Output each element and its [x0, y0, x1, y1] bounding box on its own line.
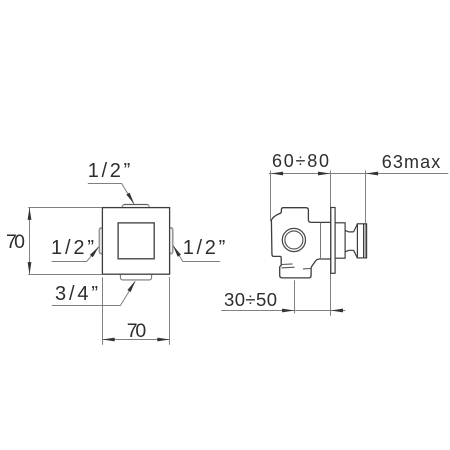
right tab (1/2" inlet right)	[169, 228, 172, 254]
arrow 60÷80 right	[318, 172, 330, 176]
dim 70 vertical: dimension line	[29, 208, 31, 275]
side port inner circle	[285, 231, 303, 249]
leader 1/2" top arrowhead	[126, 193, 136, 206]
extension line wall plane	[330, 171, 332, 316]
wall plate	[331, 208, 335, 274]
valve body outline (side)	[271, 208, 330, 278]
svg-text:60÷80: 60÷80	[272, 151, 329, 171]
inner square	[118, 223, 154, 259]
svg-text:3/4”: 3/4”	[55, 283, 98, 305]
top tab upper edge	[124, 204, 148, 206]
handle waist bottom edge	[345, 250, 354, 252]
dim 70 vertical: extension line bottom	[28, 274, 101, 276]
handle end cap	[357, 224, 366, 258]
leader 1/2" right arrowhead	[171, 244, 181, 256]
leader 1/2" top	[88, 184, 134, 204]
handle collar	[335, 223, 345, 258]
internal edge line (cylinder vs body)	[320, 223, 322, 260]
svg-text:30÷50: 30÷50	[224, 289, 277, 310]
top dimension line (60÷80 / 63max)	[269, 173, 449, 175]
stub weld line A	[282, 263, 293, 266]
outer square (valve body front)	[102, 208, 169, 275]
dim 70 vertical: arrow down	[28, 262, 32, 274]
leader 1/2" left	[52, 247, 99, 262]
handle flare top	[354, 224, 358, 232]
svg-text:70: 70	[6, 231, 25, 253]
arrow 30÷50 right	[331, 309, 343, 313]
leader 1/2" left arrowhead	[90, 245, 101, 257]
dim 70 vertical: extension line top	[28, 207, 101, 209]
top tab (1/2" inlet top)	[122, 205, 150, 208]
handle waist top edge	[345, 230, 354, 232]
bottom tab (3/4" outlet)	[120, 274, 151, 280]
dim 70 horizontal: arrow left	[102, 338, 114, 342]
dim 70 horizontal: extension line left	[102, 277, 104, 344]
extension line body-left (60÷80 left)	[270, 171, 272, 222]
dim 70 horizontal: extension line right	[169, 277, 171, 345]
side port outer circle	[282, 228, 305, 251]
svg-text:1/2”: 1/2”	[88, 160, 131, 182]
arrow 60÷80 left	[271, 172, 283, 176]
dim 70 vertical: arrow up	[28, 208, 32, 220]
dim 70 horizontal: dimension line	[102, 339, 169, 341]
end cap inner edge	[363, 224, 365, 258]
leader 3/4" arrowhead	[127, 280, 137, 292]
end cap rim edge	[364, 224, 366, 258]
svg-text:70: 70	[127, 320, 147, 342]
stub weld line right	[303, 268, 311, 270]
svg-text:1/2”: 1/2”	[183, 237, 226, 259]
left tab (1/2" inlet left)	[99, 228, 102, 254]
handle flare bottom	[354, 250, 358, 258]
svg-text:63max: 63max	[382, 152, 441, 172]
leader 3/4" bottom	[52, 282, 135, 306]
stub weld line B	[281, 266, 294, 269]
leader 1/2" right	[173, 246, 220, 262]
bottom dimension line (30÷50)	[221, 310, 345, 312]
arrow 30÷50 left	[282, 309, 294, 313]
extension line knob end (63max)	[365, 171, 367, 224]
arrow 63max	[366, 172, 378, 176]
svg-text:1/2”: 1/2”	[51, 237, 94, 259]
extension line outlet centerline	[294, 280, 296, 313]
dim 70 horizontal: arrow right	[157, 338, 169, 342]
